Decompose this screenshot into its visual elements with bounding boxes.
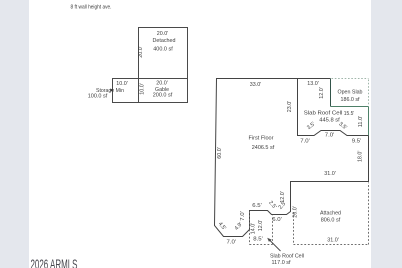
open slab bottom (green) — [331, 106, 369, 108]
attached dashed left — [293, 212, 295, 245]
leader arrow to small slab roof cell — [269, 239, 281, 251]
svg-text:Slab Roof Cell: Slab Roof Cell — [270, 254, 304, 260]
svg-text:20.0': 20.0' — [156, 81, 168, 87]
small slab roof cell dashed right — [272, 216, 274, 245]
first floor outline (black) — [215, 79, 369, 237]
svg-text:23.0': 23.0' — [287, 101, 293, 113]
svg-text:8.5': 8.5' — [253, 237, 263, 243]
svg-text:7.0': 7.0' — [240, 211, 246, 221]
svg-text:186.0 sf: 186.0 sf — [341, 97, 360, 103]
svg-text:12.0': 12.0' — [319, 87, 325, 99]
svg-text:18.0': 18.0' — [357, 151, 363, 163]
svg-text:31.0': 31.0' — [327, 238, 339, 244]
left gray strip — [0, 0, 29, 268]
detached garage rect — [139, 28, 188, 79]
svg-text:7.0': 7.0' — [227, 239, 237, 245]
attached dashed right — [368, 183, 370, 245]
svg-text:100.0 sf: 100.0 sf — [88, 94, 108, 100]
svg-text:Detached: Detached — [153, 38, 176, 44]
svg-text:8 ft wall height ave.: 8 ft wall height ave. — [71, 4, 112, 10]
slab roof cell right edge 11.0' (green) — [368, 107, 370, 136]
svg-text:200.0 sf: 200.0 sf — [153, 93, 173, 99]
svg-text:6.0': 6.0' — [272, 217, 282, 223]
svg-text:11.0': 11.0' — [358, 116, 364, 128]
svg-text:9.5': 9.5' — [352, 139, 362, 145]
svg-text:7.0': 7.0' — [325, 132, 335, 138]
svg-text:2026 ARMLS: 2026 ARMLS — [31, 257, 78, 268]
svg-text:31.0': 31.0' — [324, 171, 336, 177]
svg-text:806.0 sf: 806.0 sf — [321, 218, 341, 224]
open slab dashed top — [332, 78, 369, 80]
svg-text:20.0': 20.0' — [138, 46, 144, 58]
svg-text:14.0': 14.0' — [251, 223, 257, 235]
svg-text:3.5': 3.5' — [337, 121, 347, 131]
svg-text:10.0': 10.0' — [116, 81, 128, 87]
svg-text:117.0 sf: 117.0 sf — [272, 260, 291, 266]
svg-text:12.0': 12.0' — [258, 220, 264, 232]
small slab roof cell dashed bottom — [250, 244, 273, 246]
svg-text:15.5': 15.5' — [344, 111, 355, 117]
svg-text:445.8 sf: 445.8 sf — [319, 117, 340, 123]
svg-text:First Floor: First Floor — [249, 136, 274, 142]
svg-text:13.0': 13.0' — [307, 81, 319, 87]
svg-text:2406.5 sf: 2406.5 sf — [252, 145, 275, 151]
svg-text:3.5': 3.5' — [306, 121, 316, 131]
svg-text:Slab Roof Cell: Slab Roof Cell — [304, 111, 343, 117]
svg-text:33.0': 33.0' — [250, 82, 262, 88]
open slab dashed right — [368, 80, 370, 106]
svg-text:4.9': 4.9' — [234, 221, 244, 231]
slab roof cell vertical 12.0' (dark teal) — [330, 79, 332, 107]
svg-text:Open Slab: Open Slab — [338, 90, 363, 96]
gable rect — [139, 79, 188, 103]
svg-text:2.5': 2.5' — [267, 200, 277, 210]
right gray strip — [371, 0, 402, 268]
svg-text:Attached: Attached — [320, 211, 341, 217]
svg-text:400.0 sf: 400.0 sf — [153, 47, 173, 53]
small slab roof cell dashed left — [249, 212, 251, 245]
attached dashed bottom — [294, 244, 369, 246]
svg-text:12.0': 12.0' — [280, 191, 286, 203]
svg-text:60.0': 60.0' — [217, 147, 223, 159]
storage leader arrowhead — [110, 89, 114, 92]
svg-text:20.0': 20.0' — [157, 31, 169, 37]
storage rect — [113, 79, 139, 103]
svg-text:10.0': 10.0' — [140, 83, 146, 95]
svg-text:6.5': 6.5' — [252, 203, 262, 209]
svg-text:26.0': 26.0' — [293, 206, 299, 218]
svg-text:7.0': 7.0' — [300, 138, 310, 144]
